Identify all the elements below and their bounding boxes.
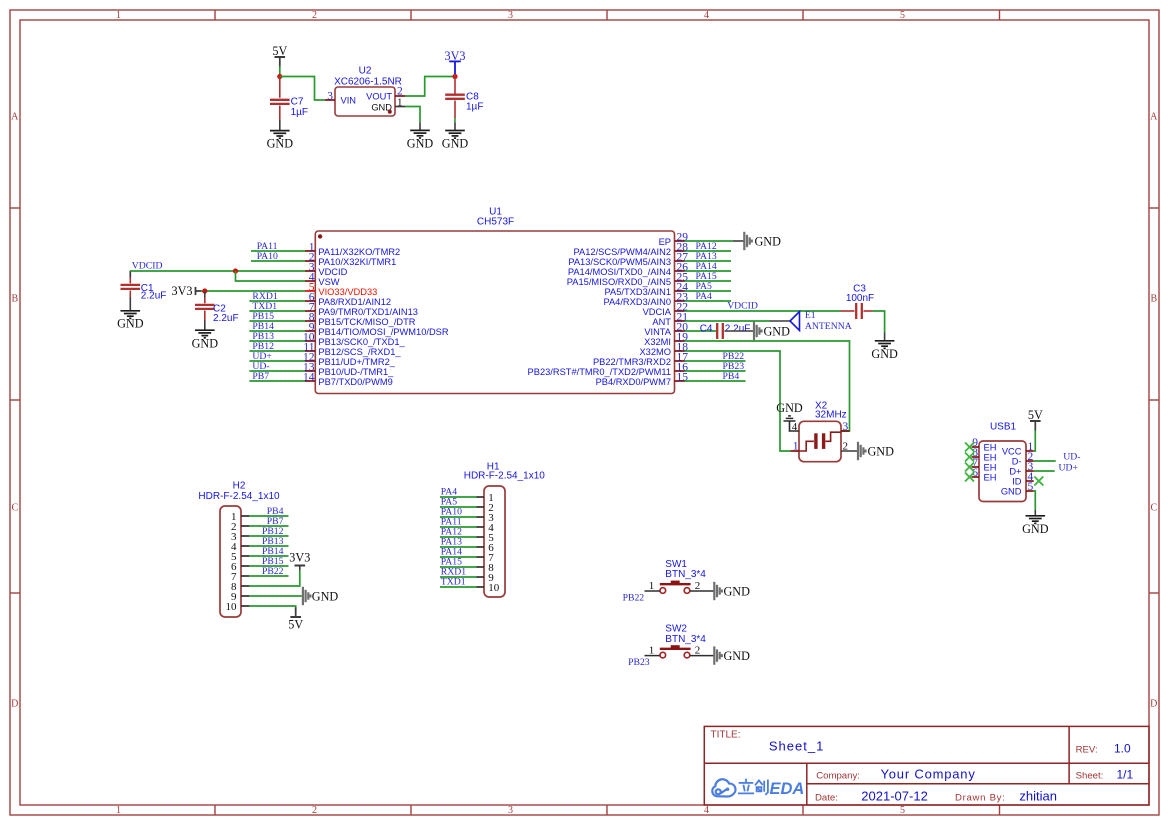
svg-text:GND: GND xyxy=(868,444,895,458)
svg-text:B: B xyxy=(1150,293,1157,304)
wire xyxy=(440,496,477,498)
wire xyxy=(685,320,770,322)
ground xyxy=(784,416,796,421)
wire xyxy=(645,655,660,657)
svg-text:2: 2 xyxy=(312,805,317,816)
net VDCID wire xyxy=(129,271,131,278)
capacitor C1 xyxy=(129,278,131,284)
net VDCID wire xyxy=(685,310,841,312)
svg-text:TITLE:: TITLE: xyxy=(711,730,741,741)
capacitor C2 xyxy=(204,291,206,298)
svg-text:UD+: UD+ xyxy=(1059,463,1078,474)
svg-text:2021-07-12: 2021-07-12 xyxy=(861,788,928,803)
wire xyxy=(690,590,714,592)
svg-text:PA11/X32KO/TMR2: PA11/X32KO/TMR2 xyxy=(318,247,400,257)
svg-text:PB11/UD+/TMR2_: PB11/UD+/TMR2_ xyxy=(318,357,395,367)
svg-text:GND: GND xyxy=(117,317,144,331)
connector H1 HDR-F-2.54_1x10 xyxy=(464,461,546,597)
svg-text:3: 3 xyxy=(508,805,513,816)
wire xyxy=(249,320,305,322)
svg-text:A: A xyxy=(11,111,19,122)
svg-text:PB13/SCK0_/TXD1_: PB13/SCK0_/TXD1_ xyxy=(318,337,405,347)
svg-text:EH: EH xyxy=(984,452,997,462)
svg-text:TXD1: TXD1 xyxy=(441,577,466,588)
wire xyxy=(685,380,746,382)
wire xyxy=(249,515,288,517)
svg-text:ANT: ANT xyxy=(652,317,671,327)
wire xyxy=(249,545,288,547)
no-connect xyxy=(1034,477,1043,486)
wire xyxy=(685,300,732,302)
wire xyxy=(249,360,305,362)
wire xyxy=(440,506,477,508)
svg-text:A: A xyxy=(1150,111,1158,122)
svg-text:4: 4 xyxy=(704,805,709,816)
svg-text:VDCID: VDCID xyxy=(318,267,347,277)
wire xyxy=(873,311,885,333)
svg-text:2.2uF: 2.2uF xyxy=(141,291,167,302)
svg-text:5: 5 xyxy=(900,805,905,816)
svg-text:PA14/MOSI/TXD0_/AIN4: PA14/MOSI/TXD0_/AIN4 xyxy=(568,267,671,277)
svg-text:D+: D+ xyxy=(1009,466,1021,476)
svg-text:GND: GND xyxy=(764,324,791,338)
svg-text:REV:: REV: xyxy=(1076,745,1098,756)
wire xyxy=(645,590,660,592)
power 3V3 xyxy=(196,287,202,295)
svg-text:3V3: 3V3 xyxy=(289,551,310,565)
svg-text:GND: GND xyxy=(312,589,339,603)
ground xyxy=(195,330,215,338)
svg-text:VIN: VIN xyxy=(341,96,357,106)
svg-text:4: 4 xyxy=(704,10,709,21)
wire xyxy=(249,595,301,597)
svg-text:C: C xyxy=(1150,502,1157,513)
ground xyxy=(744,232,752,250)
svg-text:EH: EH xyxy=(984,462,997,472)
wire xyxy=(1034,431,1036,452)
svg-text:GND: GND xyxy=(871,347,898,361)
svg-text:GND: GND xyxy=(407,137,434,151)
button SW1 BTN_3*4 xyxy=(649,559,707,593)
svg-text:USB1: USB1 xyxy=(990,422,1017,433)
svg-text:GND: GND xyxy=(776,401,803,415)
logo LCEDA xyxy=(712,779,735,796)
svg-text:GND: GND xyxy=(442,137,469,151)
wire xyxy=(251,260,305,262)
wire xyxy=(685,270,732,272)
no-connect x4 xyxy=(965,443,974,452)
wire xyxy=(841,450,858,452)
junction xyxy=(452,74,457,79)
wire xyxy=(1034,460,1056,462)
wire xyxy=(249,300,305,302)
svg-text:D: D xyxy=(1150,698,1157,709)
svg-text:GND: GND xyxy=(724,584,751,598)
ground xyxy=(875,341,895,349)
antenna E1 xyxy=(770,320,790,322)
svg-text:EH: EH xyxy=(984,442,997,452)
crystal X2 32MHz xyxy=(791,400,850,461)
svg-text:UD-: UD- xyxy=(1063,452,1080,463)
svg-text:PA5/TXD3/AIN1: PA5/TXD3/AIN1 xyxy=(605,287,671,297)
wire xyxy=(790,422,800,432)
svg-text:PA4/RXD3/AIN0: PA4/RXD3/AIN0 xyxy=(603,297,671,307)
svg-text:VCC: VCC xyxy=(1002,446,1022,456)
wire xyxy=(249,525,288,527)
svg-text:GND: GND xyxy=(724,649,751,663)
svg-text:100nF: 100nF xyxy=(846,293,874,304)
svg-text:X32MI: X32MI xyxy=(644,337,671,347)
net X32MI wire xyxy=(685,341,850,431)
svg-text:GND: GND xyxy=(755,235,782,249)
ground xyxy=(754,322,762,340)
connector USB1 xyxy=(972,422,1034,502)
svg-text:PB7/TXD0/PWM9: PB7/TXD0/PWM9 xyxy=(318,377,392,387)
svg-text:PB14/TIO/MOSI_/PWM10/DSR: PB14/TIO/MOSI_/PWM10/DSR xyxy=(318,327,448,337)
svg-text:B: B xyxy=(11,293,18,304)
button SW2 BTN_3*4 xyxy=(649,624,707,658)
svg-text:1: 1 xyxy=(649,580,655,592)
wire xyxy=(685,280,732,282)
svg-text:Sheet:: Sheet: xyxy=(1076,770,1104,781)
svg-text:VDCID: VDCID xyxy=(132,261,163,272)
svg-text:PB22/TMR3/RXD2: PB22/TMR3/RXD2 xyxy=(593,357,671,367)
svg-text:2: 2 xyxy=(312,10,317,21)
ground xyxy=(303,587,311,605)
svg-text:X32MO: X32MO xyxy=(639,347,671,357)
svg-text:ANTENNA: ANTENNA xyxy=(805,321,852,332)
svg-text:5V: 5V xyxy=(288,618,303,632)
ground xyxy=(445,131,465,139)
wire xyxy=(249,340,305,342)
wire xyxy=(440,516,477,518)
capacitor C7 xyxy=(279,77,281,98)
svg-text:PA9/TMR0/TXD1/AIN13: PA9/TMR0/TXD1/AIN13 xyxy=(318,307,418,317)
svg-text:EDA: EDA xyxy=(770,780,805,798)
svg-text:VSW: VSW xyxy=(318,277,339,287)
ground xyxy=(714,582,722,600)
power 3V3 xyxy=(449,61,461,74)
svg-text:C: C xyxy=(11,502,18,513)
svg-text:1: 1 xyxy=(116,805,121,816)
svg-text:EH: EH xyxy=(984,472,997,482)
wire xyxy=(249,330,305,332)
svg-text:D: D xyxy=(11,698,18,709)
svg-text:PA13/SCK0/PWM5/AIN3: PA13/SCK0/PWM5/AIN3 xyxy=(568,257,671,267)
wire xyxy=(685,370,746,372)
svg-text:1/1: 1/1 xyxy=(1117,767,1134,781)
svg-text:GND: GND xyxy=(267,137,294,151)
svg-text:1.0: 1.0 xyxy=(1114,742,1131,756)
svg-text:CH573F: CH573F xyxy=(477,217,514,228)
wire xyxy=(1034,491,1036,510)
svg-text:BTN_3*4: BTN_3*4 xyxy=(665,569,706,580)
svg-text:GND: GND xyxy=(1022,522,1049,536)
wire xyxy=(249,310,305,312)
svg-text:2: 2 xyxy=(695,580,701,592)
svg-text:Company:: Company: xyxy=(816,770,860,781)
wire xyxy=(1034,470,1055,472)
power 5V xyxy=(290,616,301,618)
svg-text:10: 10 xyxy=(226,601,238,613)
svg-text:PB23: PB23 xyxy=(628,657,650,668)
svg-text:VINTA: VINTA xyxy=(644,327,671,337)
wire xyxy=(249,370,305,372)
svg-text:3: 3 xyxy=(508,10,513,21)
connector H2 HDR-F-2.54_1x10 xyxy=(198,481,280,618)
svg-text:5: 5 xyxy=(1028,481,1034,493)
svg-text:EP: EP xyxy=(659,237,671,247)
svg-text:VOUT: VOUT xyxy=(366,92,392,102)
ground xyxy=(121,311,141,319)
wire xyxy=(405,77,455,97)
svg-text:1µF: 1µF xyxy=(291,107,308,118)
wire xyxy=(685,240,734,242)
wire xyxy=(249,380,305,382)
svg-text:10: 10 xyxy=(488,582,500,594)
svg-text:1: 1 xyxy=(397,96,403,108)
wire xyxy=(249,575,288,577)
svg-text:3: 3 xyxy=(327,90,333,102)
capacitor C4 xyxy=(685,330,717,332)
title block xyxy=(704,726,1149,805)
wire xyxy=(251,250,305,252)
wire xyxy=(249,350,305,352)
svg-text:PB15/TCK/MISO_/DTR: PB15/TCK/MISO_/DTR xyxy=(318,317,415,327)
svg-text:1: 1 xyxy=(116,10,121,21)
svg-text:PA15/MISO/RXD0_/AIN5: PA15/MISO/RXD0_/AIN5 xyxy=(567,277,671,287)
wire xyxy=(440,586,477,588)
svg-text:PB4/RXD0/PWM7: PB4/RXD0/PWM7 xyxy=(596,377,671,387)
wire xyxy=(249,565,288,567)
capacitor C8 xyxy=(454,74,456,94)
svg-text:2.2uF: 2.2uF xyxy=(725,323,751,334)
wire xyxy=(249,535,288,537)
wire xyxy=(685,360,746,362)
svg-text:1µF: 1µF xyxy=(466,102,483,113)
junction xyxy=(277,74,282,79)
svg-text:Date:: Date: xyxy=(815,792,838,803)
svg-text:HDR-F-2.54_1x10: HDR-F-2.54_1x10 xyxy=(464,470,546,481)
wire xyxy=(279,67,281,77)
svg-text:3: 3 xyxy=(843,421,849,433)
svg-text:5V: 5V xyxy=(272,44,287,58)
svg-text:VDCIA: VDCIA xyxy=(643,307,672,317)
svg-text:XC6206-1.5NR: XC6206-1.5NR xyxy=(334,76,402,87)
svg-text:VIO33/VDD33: VIO33/VDD33 xyxy=(318,287,377,297)
svg-text:5: 5 xyxy=(900,10,905,21)
wire xyxy=(440,556,477,558)
svg-text:2.2uF: 2.2uF xyxy=(213,313,239,324)
ground xyxy=(714,646,722,664)
wire xyxy=(440,546,477,548)
wire xyxy=(440,536,477,538)
wire xyxy=(249,606,295,612)
wire xyxy=(685,260,732,262)
svg-text:PB23/RST#/TMR0_/TXD2/PWM11: PB23/RST#/TMR0_/TXD2/PWM11 xyxy=(528,367,671,377)
IC U2 XC6206-1.5NR xyxy=(325,66,405,117)
IC U1 CH573F xyxy=(303,207,688,394)
svg-text:1: 1 xyxy=(793,441,799,453)
svg-text:C4: C4 xyxy=(700,323,713,334)
power 3V3 xyxy=(295,565,306,567)
svg-text:5V: 5V xyxy=(1028,408,1043,422)
ground xyxy=(270,131,290,139)
net X32MO wire xyxy=(685,351,791,451)
wire xyxy=(249,571,299,586)
svg-text:GND: GND xyxy=(192,336,219,350)
svg-text:3V3: 3V3 xyxy=(172,284,193,298)
svg-text:PA12/SCS/PWM4/AIN2: PA12/SCS/PWM4/AIN2 xyxy=(574,247,671,257)
svg-text:PA10/X32KI/TMR1: PA10/X32KI/TMR1 xyxy=(318,257,396,267)
svg-text:HDR-F-2.54_1x10: HDR-F-2.54_1x10 xyxy=(198,491,280,502)
svg-text:GND: GND xyxy=(1001,486,1022,496)
svg-text:Drawn By:: Drawn By: xyxy=(955,792,1006,803)
svg-text:ID: ID xyxy=(1012,476,1022,486)
svg-text:D-: D- xyxy=(1012,456,1022,466)
svg-text:PB10/UD-/TMR1_: PB10/UD-/TMR1_ xyxy=(318,367,394,377)
svg-text:PA8/RXD1/AIN12: PA8/RXD1/AIN12 xyxy=(318,297,391,307)
ground xyxy=(1026,516,1046,524)
svg-text:3V3: 3V3 xyxy=(445,49,466,63)
svg-text:Your Company: Your Company xyxy=(881,766,976,781)
svg-text:BTN_3*4: BTN_3*4 xyxy=(665,634,706,645)
svg-text:zhitian: zhitian xyxy=(1019,788,1057,803)
svg-text:E1: E1 xyxy=(805,310,816,321)
svg-text:1: 1 xyxy=(649,645,655,657)
capacitor C3 xyxy=(841,310,855,312)
svg-text:PB22: PB22 xyxy=(623,593,645,604)
wire xyxy=(249,555,288,557)
wire xyxy=(440,576,477,578)
ground xyxy=(410,130,430,138)
wire xyxy=(685,290,732,292)
wire xyxy=(201,290,305,292)
wire xyxy=(685,250,732,252)
wire xyxy=(440,526,477,528)
wire xyxy=(440,566,477,568)
wire xyxy=(236,271,306,281)
svg-text:PB12/SCS_/RXD1_: PB12/SCS_/RXD1_ xyxy=(318,347,401,357)
svg-text:Sheet_1: Sheet_1 xyxy=(769,739,824,754)
svg-text:2: 2 xyxy=(695,645,701,657)
junction xyxy=(233,268,238,273)
wire xyxy=(280,77,325,101)
wire xyxy=(690,655,714,657)
ground xyxy=(858,442,866,460)
svg-text:U2: U2 xyxy=(359,66,372,77)
wire xyxy=(405,107,420,123)
svg-text:VDCID: VDCID xyxy=(727,301,758,312)
svg-text:32MHz: 32MHz xyxy=(815,410,847,421)
junction xyxy=(202,288,207,293)
